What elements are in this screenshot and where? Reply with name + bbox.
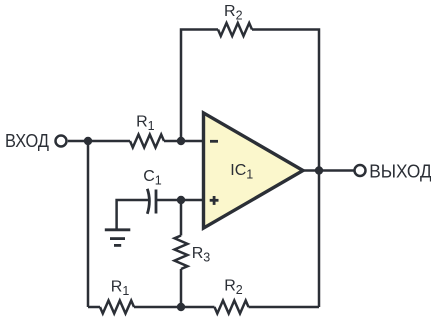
resistor R1 bottom bbox=[100, 301, 134, 314]
resistor R3 bbox=[175, 236, 188, 270]
wire top feedback right segment bbox=[252, 30, 319, 308]
junction plus node bbox=[177, 196, 185, 204]
wire bottom rail right bbox=[249, 306, 320, 309]
output terminal bbox=[355, 165, 366, 176]
wire left vertical input to bottom rail bbox=[87, 141, 90, 307]
wire feedback vertical up from minus node bbox=[181, 30, 218, 142]
svg-text:R1: R1 bbox=[111, 279, 130, 299]
wire plus node down to R3 bbox=[180, 200, 183, 236]
wire R3 to bottom rail bbox=[180, 269, 183, 307]
svg-text:R1: R1 bbox=[136, 113, 155, 133]
ground bbox=[105, 230, 131, 246]
input terminal bbox=[56, 136, 67, 147]
resistor R2 bottom bbox=[215, 301, 249, 314]
wire output rail bbox=[303, 169, 354, 172]
svg-text:R2: R2 bbox=[224, 3, 243, 23]
junction bottom node bbox=[177, 303, 185, 311]
wire R1 to op-amp minus input bbox=[164, 140, 204, 143]
svg-text:R3: R3 bbox=[192, 245, 211, 265]
svg-text:R2: R2 bbox=[224, 278, 243, 298]
capacitor C1 bbox=[147, 189, 156, 214]
junction output node bbox=[315, 166, 323, 174]
wire input rail bbox=[68, 140, 130, 143]
svg-text:ВХОД: ВХОД bbox=[5, 131, 49, 151]
resistor R1 top bbox=[130, 135, 164, 148]
junction minus node bbox=[177, 137, 185, 145]
svg-text:C1: C1 bbox=[143, 168, 162, 188]
op-amp IC1 bbox=[204, 113, 304, 228]
wire plus input bbox=[157, 199, 204, 202]
resistor R2 top bbox=[218, 23, 252, 36]
wire bottom rail middle bbox=[134, 306, 215, 309]
wire bottom rail left bbox=[88, 306, 100, 309]
svg-text:ВЫХОД: ВЫХОД bbox=[369, 162, 431, 182]
wire capacitor to ground bbox=[117, 200, 148, 230]
junction input node bbox=[84, 137, 92, 145]
